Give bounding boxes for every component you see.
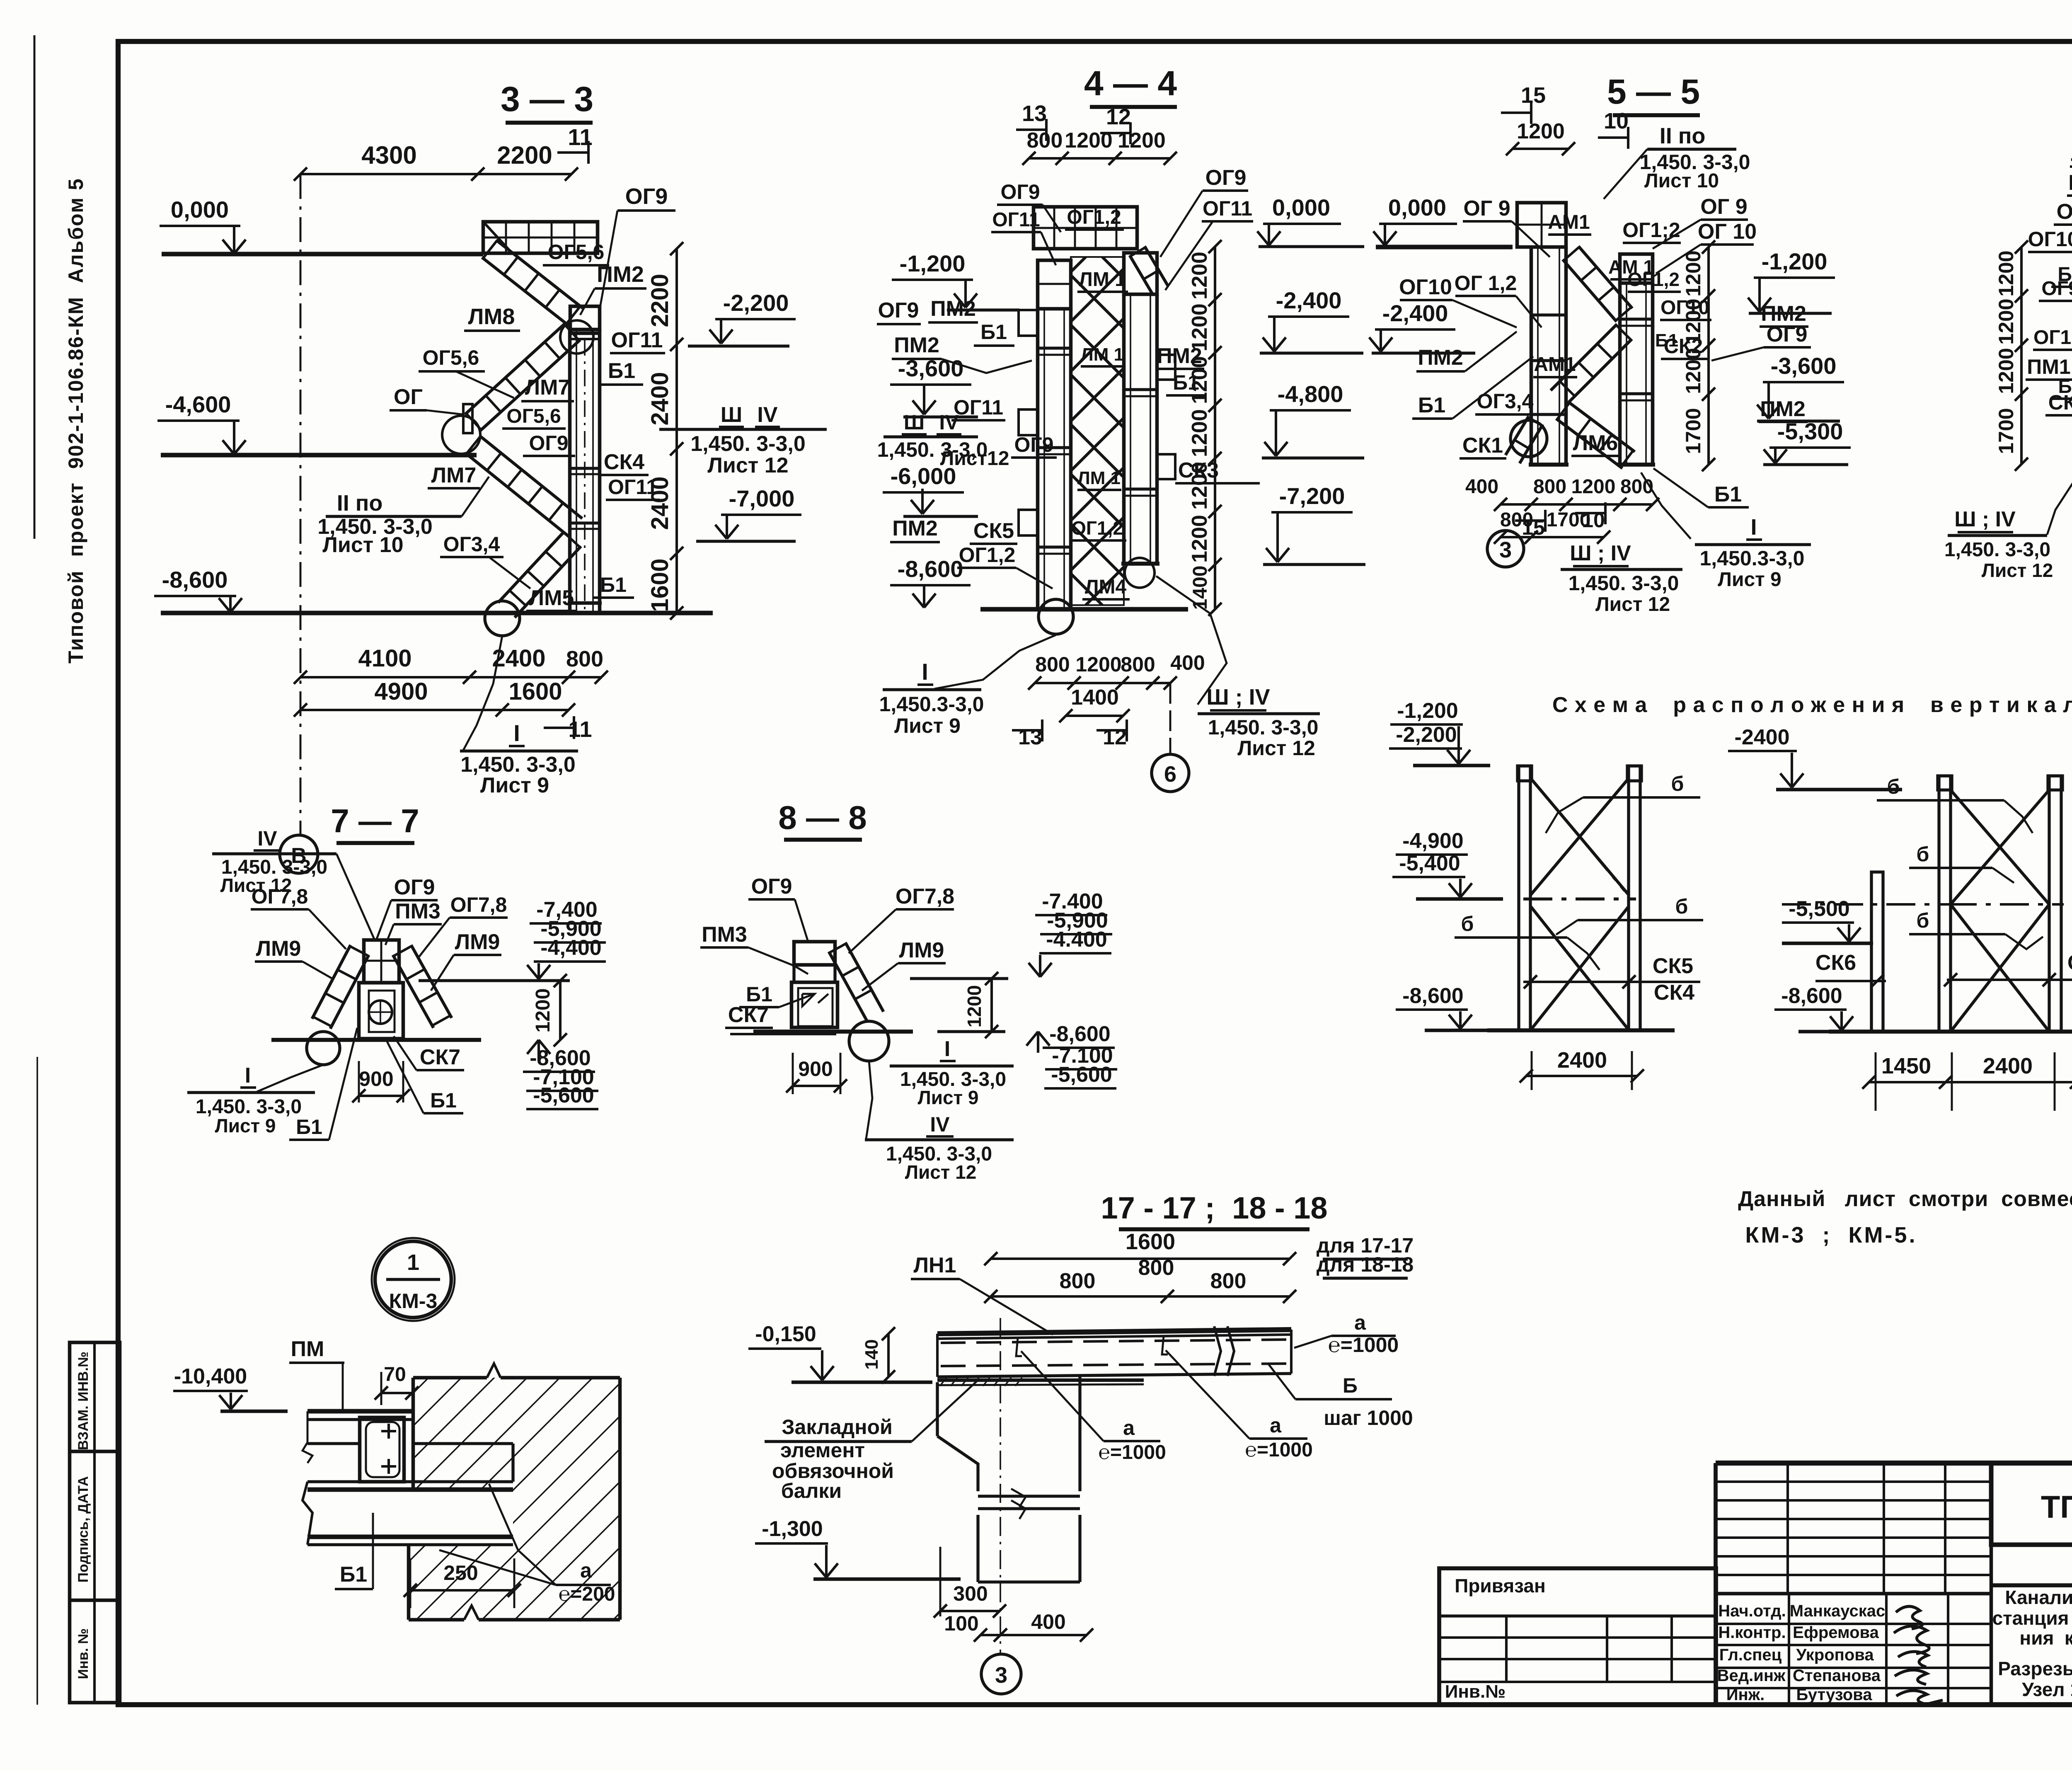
svg-text:800: 800 (1121, 653, 1155, 676)
svg-text:ОГ 1,2: ОГ 1,2 (1455, 271, 1517, 295)
svg-text:1200: 1200 (1065, 128, 1113, 153)
section 3-3 title (501, 80, 593, 164)
svg-text:-3,600: -3,600 (898, 355, 964, 381)
svg-text:СК4: СК4 (604, 450, 644, 474)
schema header text (1552, 693, 2072, 760)
svg-text:Б1: Б1 (980, 320, 1007, 344)
svg-text:Канализационная насосная: Канализационная насосная (2005, 1587, 2072, 1608)
svg-text:ОГ9: ОГ9 (394, 875, 435, 899)
svg-text:ПМ2: ПМ2 (894, 333, 939, 357)
node 1 detail circle 1/KM-3 (372, 1238, 455, 1321)
node 1 dim 70 (375, 1364, 419, 1405)
svg-text:-8,600: -8,600 (1049, 1022, 1110, 1046)
section 17-17 column below slab (937, 1318, 1080, 1654)
svg-text:ВЗАМ. ИНВ.№: ВЗАМ. ИНВ.№ (75, 1352, 91, 1450)
section 17-17 top dim 1600 (984, 1229, 1296, 1303)
svg-text:12: 12 (1106, 104, 1131, 129)
svg-text:140: 140 (862, 1339, 882, 1369)
section 5-5 title (1607, 72, 1700, 115)
svg-text:-4,900: -4,900 (1402, 829, 1463, 853)
svg-text:ЛМ4: ЛМ4 (1085, 576, 1127, 598)
svg-text:-2,200: -2,200 (723, 290, 789, 316)
svg-text:Степанова: Степанова (1793, 1667, 1881, 1685)
svg-text:Ш ; IV: Ш ; IV (1570, 541, 1631, 565)
section 3-3 elevation -7.000 (696, 485, 801, 541)
section 5-5 bottom dimension chains (1465, 476, 1659, 544)
section 5-5 top dimension 1200 (1506, 119, 1575, 155)
svg-text:1200: 1200 (1075, 653, 1121, 676)
svg-text:-2,400: -2,400 (1276, 287, 1342, 313)
svg-text:АМ1: АМ1 (1534, 354, 1576, 376)
svg-text:ЛМ6: ЛМ6 (1573, 431, 1618, 455)
schema frame 1 CK5 CK4 labels (1523, 954, 1700, 1005)
svg-text:ПМ: ПМ (291, 1337, 324, 1361)
svg-text:Б1: Б1 (600, 573, 627, 596)
svg-text:Укропова: Укропова (1796, 1646, 1874, 1664)
svg-text:I: I (944, 1037, 950, 1061)
svg-text:Лист 10: Лист 10 (322, 533, 403, 557)
section 7-7 right elevations lower (523, 1040, 598, 1109)
section 3-3 reference II po list 10 (317, 477, 489, 557)
svg-text:Б1: Б1 (430, 1089, 457, 1112)
section 3-3 bottom dimension chain 4100/2400/800 (294, 645, 608, 684)
section 7-7 dim 1200 vertical (419, 974, 570, 1047)
svg-text:800: 800 (1533, 476, 1566, 498)
svg-text:900: 900 (359, 1067, 393, 1090)
section 7-7 labels (251, 875, 508, 1140)
svg-text:12: 12 (1103, 725, 1127, 749)
svg-text:С х е м а р а с п о л о ж е: С х е м а р а с п о л о ж е н и я в е р … (1552, 693, 2072, 717)
note text KM-3 KM-5 (1738, 1187, 2072, 1248)
section 5-5 left column (1529, 247, 1569, 465)
node 1 channel profile (360, 1417, 404, 1482)
svg-text:I: I (922, 659, 928, 685)
svg-text:б: б (1917, 843, 1929, 866)
svg-text:800: 800 (1027, 128, 1063, 153)
svg-text:Вед.инж: Вед.инж (1717, 1667, 1786, 1685)
svg-text:станция при глубине заложе-: станция при глубине заложе- (1992, 1607, 2072, 1629)
svg-text:Б1: Б1 (1418, 393, 1445, 417)
svg-text:IV: IV (930, 1113, 950, 1136)
svg-text:1200: 1200 (1682, 298, 1705, 344)
svg-text:ПМ1: ПМ1 (2027, 355, 2070, 378)
svg-text:0,000: 0,000 (171, 196, 229, 223)
title block revision grid (1716, 1463, 1991, 1705)
section 4-4 bottom dimension chains (1028, 651, 1205, 722)
svg-text:1200: 1200 (1517, 119, 1565, 143)
section 17-17 18-18 title (1101, 1191, 1327, 1229)
svg-text:б: б (1461, 912, 1474, 935)
svg-text:ОГ10: ОГ10 (1399, 275, 1452, 299)
svg-text:1200: 1200 (1571, 476, 1616, 498)
svg-text:ЛМ9: ЛМ9 (899, 938, 944, 962)
svg-text:1200: 1200 (1188, 462, 1212, 510)
svg-text:ОГ1,2: ОГ1,2 (959, 543, 1016, 567)
section 5-5 left elevations and labels (1369, 196, 1619, 458)
svg-text:ЛМ9: ЛМ9 (256, 937, 301, 961)
svg-text:ОГ5,6: ОГ5,6 (423, 346, 479, 369)
section 4-4 right elevations (1257, 194, 1365, 564)
section 3-3 level 0.000 (160, 196, 483, 254)
section 8-8 base circle and ground (753, 1021, 1005, 1061)
svg-text:Лист 9: Лист 9 (894, 714, 961, 737)
node 1 beam B1 (303, 1482, 513, 1545)
svg-text:1: 1 (407, 1250, 419, 1275)
svg-text:ОГ5,6: ОГ5,6 (548, 240, 605, 264)
section 5-5 bottom marks and references (1487, 468, 1811, 615)
svg-text:б: б (1675, 895, 1688, 918)
svg-text:ОГ7,8: ОГ7,8 (252, 885, 308, 908)
title block sections box (1998, 1658, 2072, 1700)
svg-text:элемент: элемент (780, 1439, 865, 1462)
schema frame 1 elevation -8.600 (1396, 984, 1496, 1030)
svg-text:800: 800 (1210, 1269, 1247, 1293)
schema frame 1 bottom X brace (1530, 906, 1629, 1030)
svg-text:Лист 9: Лист 9 (1718, 569, 1781, 591)
svg-text:ЛМ 1: ЛМ 1 (1081, 344, 1124, 365)
svg-text:ОГ1,2: ОГ1,2 (1627, 269, 1680, 290)
svg-text:СК1: СК1 (1462, 434, 1503, 458)
svg-text:-4,800: -4,800 (1278, 381, 1343, 407)
svg-text:Лист 9: Лист 9 (917, 1087, 978, 1108)
svg-text:Манкаускас: Манкаускас (1790, 1602, 1886, 1620)
section 5-5 top marks 15 and 10 (1501, 83, 1629, 149)
section 5-5 right elevations (1711, 248, 1851, 465)
svg-text:ЛМ7: ЛМ7 (525, 376, 570, 400)
svg-text:1200: 1200 (1188, 303, 1212, 351)
svg-text:ОГ11: ОГ11 (1203, 197, 1252, 220)
svg-text:Гл.спец: Гл.спец (1719, 1646, 1782, 1664)
svg-text:5 — 5: 5 — 5 (1607, 72, 1700, 111)
svg-text:ОГ11: ОГ11 (608, 475, 658, 499)
section 4-4 bottom marks 13/12 and references (879, 576, 1320, 760)
svg-text:ОГ1,2: ОГ1,2 (1067, 206, 1121, 228)
svg-text:0,000: 0,000 (1388, 194, 1446, 220)
section 3-3 right dimension chain 2200/2400/2400/1600 (646, 242, 683, 620)
svg-text:ОГ: ОГ (394, 385, 423, 409)
section 8-8 labels (700, 875, 954, 1034)
svg-text:1400: 1400 (1071, 686, 1119, 710)
section 17-17 a e1000 top right (1294, 1311, 1399, 1357)
node 1 level -10.400 (173, 1364, 288, 1411)
svg-text:800: 800 (566, 647, 603, 671)
section 3-3 top dimension chain 4300/2200 (294, 141, 578, 181)
section 4-4 top marks 13 and 12 (1016, 101, 1131, 144)
svg-text:б: б (1917, 909, 1929, 932)
svg-text:Бутузова: Бутузова (1796, 1686, 1873, 1704)
section 4-4 interior labels (991, 166, 1260, 599)
svg-text:Ш: Ш (721, 403, 742, 427)
section 5-5 right dimension chain (1682, 240, 1715, 471)
svg-text:ОГ9: ОГ9 (751, 875, 792, 899)
svg-text:ЛМ5: ЛМ5 (529, 586, 574, 610)
section 7-7 dim 900 (352, 1061, 410, 1102)
section 5-5 interior labels (1548, 195, 1757, 359)
section 7-7 reference IV list 12 (212, 827, 375, 941)
svg-text:Разрезы 3-3÷8-8; 17-17;18-18: Разрезы 3-3÷8-8; 17-17;18-18 (1998, 1658, 2072, 1679)
svg-text:СК3: СК3 (2067, 951, 2072, 975)
svg-text:1200: 1200 (1995, 348, 2018, 394)
section 4-4 left elevations and labels (877, 250, 1057, 589)
section 4-4 grid circle 6 (1152, 683, 1189, 792)
svg-text:3 — 3: 3 — 3 (501, 80, 593, 119)
section 4-4 roof slab (1034, 207, 1137, 249)
svg-text:Привязан: Привязан (1455, 1575, 1546, 1597)
svg-text:400: 400 (1170, 651, 1205, 674)
schema frame 2 CK6 CK3 labels (1815, 951, 2072, 988)
svg-text:б: б (1671, 772, 1684, 795)
svg-text:ОГ10: ОГ10 (2028, 228, 2072, 251)
svg-text:ОГ9: ОГ9 (2057, 200, 2072, 224)
title block left box privyazan (1439, 1568, 1716, 1705)
svg-text:2400: 2400 (1557, 1048, 1607, 1073)
svg-text:℮=200: ℮=200 (559, 1583, 615, 1605)
section 5-5 reference II po list 10 (1604, 124, 1750, 199)
svg-text:400: 400 (1031, 1610, 1065, 1633)
svg-text:Лист 12: Лист 12 (1237, 737, 1315, 760)
svg-text:ОГ 9: ОГ 9 (1463, 196, 1510, 220)
svg-text:1700: 1700 (1995, 408, 2018, 454)
svg-text:Инв.№: Инв.№ (1445, 1681, 1506, 1702)
svg-text:1200: 1200 (1995, 250, 2018, 296)
svg-text:300: 300 (953, 1582, 988, 1605)
svg-text:℮=1000: ℮=1000 (1328, 1333, 1399, 1357)
section 8-8 right elevations upper (1029, 889, 1112, 977)
schema frame 1 elevations -1.200 -2.200 (1389, 699, 1490, 766)
svg-text:а: а (1354, 1311, 1366, 1334)
svg-text:-5,600: -5,600 (1051, 1063, 1112, 1087)
svg-text:Б1: Б1 (1655, 330, 1678, 351)
svg-text:1200: 1200 (1118, 128, 1166, 153)
section 3-3 column (560, 306, 602, 613)
svg-text:ПМ2: ПМ2 (930, 297, 976, 321)
section 17-17 a e1000 mid-right (1166, 1350, 1313, 1461)
section 17-17 LN1 label (911, 1253, 1053, 1335)
svg-text:2200: 2200 (646, 274, 673, 327)
left margin stamp text (64, 178, 87, 664)
svg-text:ОГ9: ОГ9 (878, 298, 919, 322)
section 3-3 bend plate ОГ (442, 404, 480, 454)
svg-text:Ефремова: Ефремова (1793, 1623, 1879, 1642)
schema frame 2 X braces (1782, 790, 2064, 1032)
svg-text:ЛМ 1: ЛМ 1 (1077, 468, 1121, 488)
section 6-6 left labels (2026, 142, 2072, 415)
svg-text:I: I (1750, 515, 1757, 540)
svg-text:шаг 1000: шаг 1000 (1324, 1406, 1413, 1429)
section 3-3 bottom dimension chain 4900/1600 (294, 678, 575, 717)
section 5-5 level 0.000 (1373, 194, 1513, 247)
svg-text:-8,600: -8,600 (1402, 984, 1463, 1008)
svg-text:4100: 4100 (358, 645, 411, 672)
svg-text:б: б (1887, 775, 1900, 798)
svg-text:I: I (245, 1064, 251, 1088)
svg-text:-8,600: -8,600 (1781, 984, 1842, 1008)
section 17-17 grid circle 3 (981, 1654, 1021, 1694)
svg-text:-3,600: -3,600 (1771, 353, 1837, 379)
svg-text:3: 3 (995, 1663, 1007, 1688)
section 4-4 top dimension chain 800/1200/1200 (1022, 128, 1177, 165)
svg-text:КМ-3: КМ-3 (389, 1289, 438, 1313)
svg-text:100: 100 (944, 1612, 978, 1635)
section 17-17 dim 140 (862, 1327, 895, 1383)
svg-text:13: 13 (1022, 101, 1047, 126)
svg-text:-2400: -2400 (1735, 725, 1790, 749)
svg-text:15: 15 (1521, 83, 1546, 108)
svg-text:ТП 902-1-106.86: ТП 902-1-106.86 (2041, 1490, 2072, 1525)
section 17-17 floor slab (937, 1326, 1291, 1386)
svg-text:для 18-18: для 18-18 (1317, 1253, 1414, 1276)
section 3-3 grid axis line and circle В (280, 174, 318, 873)
svg-text:10: 10 (1604, 109, 1629, 133)
svg-text:ПМ2: ПМ2 (1418, 346, 1463, 370)
svg-text:-2,400: -2,400 (1382, 300, 1448, 326)
svg-text:СК7: СК7 (728, 1003, 769, 1027)
svg-text:1,450. 3-3,0: 1,450. 3-3,0 (1569, 572, 1679, 595)
section 3-3 brace ЛМ7 upper (465, 323, 580, 431)
section 3-3 bottom mark 11 and reference I list 9 (460, 636, 592, 797)
svg-text:-4.400: -4.400 (1046, 928, 1107, 952)
svg-text:Ш: Ш (904, 411, 925, 434)
svg-text:ЛН1: ЛН1 (914, 1253, 956, 1277)
svg-text:1600: 1600 (646, 558, 673, 612)
svg-text:Лист 12: Лист 12 (707, 453, 788, 477)
schema frame 1 posts (1518, 766, 1641, 1030)
section 4-4 cross bracing lattice (1071, 246, 1168, 605)
section 8-8 reference IV list 12 (865, 1061, 1014, 1183)
svg-text:-4,400: -4,400 (540, 936, 601, 960)
svg-text:-10,400: -10,400 (174, 1364, 247, 1388)
svg-text:1,450.3-3,0: 1,450.3-3,0 (1700, 547, 1805, 570)
section 7-7 left brace (312, 945, 369, 1029)
svg-text:ПМ3: ПМ3 (702, 923, 747, 947)
svg-text:ОГ9: ОГ9 (625, 184, 668, 209)
svg-text:ПМ3: ПМ3 (395, 899, 441, 923)
svg-text:ОГ9: ОГ9 (1000, 180, 1040, 204)
svg-text:Лист 9: Лист 9 (480, 773, 549, 797)
svg-text:СК4: СК4 (1654, 981, 1694, 1005)
svg-text:800: 800 (1060, 1269, 1096, 1293)
node 1 inner slab band (413, 1444, 513, 1482)
svg-text:ОГ11: ОГ11 (611, 328, 663, 352)
schema frame 2 b-lines (1877, 775, 2043, 949)
svg-text:СК5: СК5 (1653, 954, 1693, 978)
svg-text:1200: 1200 (1188, 409, 1212, 457)
section 3-3 base circle (485, 601, 520, 636)
title block project name box (1991, 1585, 2072, 1705)
svg-text:800: 800 (1035, 653, 1070, 676)
section 3-3 elevation -2.200 (688, 290, 796, 346)
svg-text:а: а (1123, 1416, 1135, 1439)
svg-text:8 — 8: 8 — 8 (778, 799, 867, 836)
svg-text:Б: Б (1343, 1374, 1358, 1397)
section 3-3 brace ЛМ5 (498, 531, 581, 618)
svg-text:1200: 1200 (963, 985, 985, 1027)
svg-text:Ш ; IV: Ш ; IV (1954, 507, 2016, 531)
svg-text:IV: IV (757, 403, 777, 427)
svg-text:КМ-3 ; КМ-5.: КМ-3 ; КМ-5. (1745, 1223, 1917, 1248)
svg-text:-1,200: -1,200 (900, 250, 966, 276)
section 8-8 brace LM9 (829, 942, 884, 1021)
svg-text:6: 6 (1164, 762, 1176, 787)
svg-text:-7,200: -7,200 (1279, 483, 1345, 509)
section 17-17 bottom dims 300 100 400 (934, 1547, 1093, 1642)
section 7-7 right elevations upper (527, 898, 606, 979)
schema frame 2 elevation -8.600 left (1774, 984, 1857, 1032)
svg-text:Инв. №: Инв. № (75, 1628, 91, 1679)
svg-text:СК2: СК2 (2048, 391, 2072, 414)
svg-text:IV: IV (939, 411, 959, 434)
svg-text:ПМ2: ПМ2 (597, 262, 644, 287)
svg-text:800: 800 (1620, 476, 1653, 498)
section 3-3 level -8.600 (154, 567, 713, 613)
section 8-8 dim 900 (786, 1053, 847, 1094)
svg-text:1,450. 3-3,0: 1,450. 3-3,0 (1208, 716, 1319, 739)
section 6-6 bottom marks and references (1944, 286, 2072, 620)
schema frame 2 elevation -2.400 (1728, 725, 1902, 790)
svg-text:II по: II по (337, 491, 383, 516)
svg-text:-1,200: -1,200 (1397, 699, 1458, 723)
svg-text:2400: 2400 (1983, 1054, 2033, 1078)
svg-text:Ш ; IV: Ш ; IV (1206, 685, 1270, 710)
svg-text:1,450.3-3,0: 1,450.3-3,0 (879, 693, 984, 716)
svg-text:70: 70 (384, 1364, 406, 1386)
section 17-17 a e1000 mid-left (1021, 1351, 1166, 1463)
node 1 dim 250 (404, 1558, 521, 1608)
svg-text:-1,300: -1,300 (762, 1517, 823, 1541)
svg-text:ПМ1: ПМ1 (2068, 171, 2072, 195)
section 17-17 level -0.150 (748, 1322, 932, 1382)
svg-text:балки: балки (781, 1479, 842, 1502)
title block names table (1716, 1594, 1991, 1705)
section 4-4 base circles (1038, 558, 1155, 634)
svg-text:0,000: 0,000 (1272, 194, 1330, 220)
section 3-3 brace ОГ9 lower (465, 436, 582, 536)
svg-text:1,450. 3-3,0: 1,450. 3-3,0 (690, 432, 806, 456)
section 7-7 right brace (393, 945, 452, 1028)
svg-text:СК6: СК6 (1815, 951, 1856, 975)
svg-text:Лист 12: Лист 12 (1595, 594, 1670, 615)
node 1 PM label (289, 1337, 344, 1413)
svg-text:ОГ11: ОГ11 (954, 396, 1003, 419)
svg-text:17 - 17 ; 18 - 18: 17 - 17 ; 18 - 18 (1101, 1191, 1327, 1225)
svg-text:-5,600: -5,600 (533, 1083, 594, 1107)
node 1 upper beam PM (303, 1411, 413, 1463)
section 4-4 base level line -8.600 (890, 556, 1188, 609)
section 7-7 reference I list 9 (187, 1064, 323, 1136)
svg-text:ЛМ8: ЛМ8 (468, 304, 515, 329)
title block document number box (1991, 1463, 2072, 1545)
title block outline (1716, 1463, 2072, 1705)
svg-text:СК5: СК5 (973, 519, 1014, 543)
svg-text:800: 800 (1138, 1256, 1174, 1280)
section 7-7 title (331, 802, 419, 843)
svg-text:Типовой проект 902-1-106.86-: Типовой проект 902-1-106.86-КМ Альбом 5 (64, 178, 87, 664)
svg-text:ПМ2: ПМ2 (892, 516, 938, 540)
svg-text:ОГ9: ОГ9 (529, 431, 568, 455)
svg-text:7 — 7: 7 — 7 (331, 802, 419, 839)
svg-text:Н.контр.: Н.контр. (1718, 1623, 1786, 1642)
section 17-17 dlya labels (1317, 1234, 1414, 1278)
svg-text:1200: 1200 (532, 988, 554, 1033)
svg-text:Лист 12: Лист 12 (905, 1161, 977, 1183)
svg-text:11: 11 (568, 717, 592, 742)
left margin table (70, 1342, 120, 1703)
svg-text:ОГ9: ОГ9 (1014, 433, 1053, 456)
svg-text:Нач.отд.: Нач.отд. (1718, 1602, 1786, 1620)
svg-text:ЛМ9: ЛМ9 (455, 930, 500, 954)
svg-text:1200: 1200 (1188, 515, 1212, 563)
section 4-4 title (1084, 64, 1177, 107)
